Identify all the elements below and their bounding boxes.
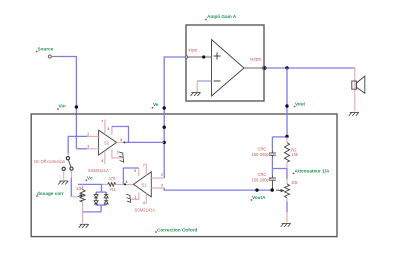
wire output inside box bbox=[244, 67, 263, 69]
wire switch right to wiper bbox=[71, 171, 73, 178]
capacitor C2 bbox=[271, 169, 273, 176]
wire S1 pin3 to attenuator bbox=[164, 188, 272, 190]
input port bbox=[185, 56, 187, 58]
pin 2 S1 bbox=[151, 177, 164, 179]
switch SW1 bbox=[67, 154, 69, 157]
op-amp U1 triangle bbox=[212, 40, 245, 97]
diode D4 bbox=[104, 198, 108, 205]
svg-text:1: 1 bbox=[135, 195, 137, 199]
output port bbox=[262, 67, 264, 69]
svg-text:Correction Oxford: Correction Oxford bbox=[157, 228, 198, 233]
speaker LS1 bbox=[352, 76, 365, 93]
wire input to plus bbox=[188, 56, 212, 58]
svg-text:150-200pF: 150-200pF bbox=[252, 152, 272, 157]
op-amp S2 bbox=[99, 130, 117, 155]
resistor R1 470 bbox=[103, 183, 108, 185]
ground attenuator bbox=[281, 223, 291, 227]
svg-text:SSM2141A: SSM2141A bbox=[88, 168, 109, 173]
pin 7 stub S1 bbox=[145, 163, 147, 175]
wire diode box stub top bbox=[101, 184, 103, 192]
wire pin2 to switch bbox=[68, 136, 87, 153]
svg-text:7: 7 bbox=[101, 120, 103, 124]
svg-text:R1: R1 bbox=[110, 187, 116, 192]
wire pot bottom bbox=[83, 211, 102, 213]
wiper arrow pot R3 bbox=[78, 195, 82, 197]
svg-text:10k: 10k bbox=[291, 180, 299, 185]
svg-text:10k: 10k bbox=[76, 186, 84, 191]
svg-text:470: 470 bbox=[109, 176, 117, 181]
pin 5 stub S2 bbox=[111, 127, 113, 135]
svg-text:On Off correction: On Off correction bbox=[34, 159, 66, 164]
pin 6 output S2 bbox=[117, 141, 125, 143]
svg-text:Vin: Vin bbox=[59, 104, 66, 109]
node Vin bbox=[75, 105, 78, 108]
ground in ampli box bbox=[191, 93, 201, 97]
node VoutA bbox=[255, 188, 258, 191]
resistor R2 bbox=[286, 137, 288, 143]
svg-text:5: 5 bbox=[134, 169, 136, 173]
wire diode box top bbox=[96, 191, 106, 193]
pin 4 stub S1 bbox=[145, 193, 147, 204]
wire attenuator top bbox=[272, 136, 287, 138]
svg-text:6: 6 bbox=[121, 138, 123, 142]
pin 3 S2 bbox=[87, 148, 99, 150]
ground S2 pin1 bbox=[119, 152, 124, 163]
node junction trunk S2 output bbox=[163, 141, 166, 144]
svg-text:input: input bbox=[189, 48, 199, 53]
svg-text:150-200pF: 150-200pF bbox=[252, 178, 272, 183]
wire speaker drop bbox=[354, 68, 356, 111]
pin 5 stub S1 bbox=[138, 168, 140, 176]
svg-text:VoutA: VoutA bbox=[252, 195, 266, 200]
wire pin3 to Vin trunk bbox=[76, 148, 87, 150]
wire S1 feedback loop bbox=[123, 168, 138, 184]
svg-text:Source: Source bbox=[38, 47, 54, 52]
wire diode box bottom bbox=[96, 204, 106, 206]
svg-text:4: 4 bbox=[143, 201, 145, 205]
svg-text:Ve: Ve bbox=[153, 102, 159, 107]
wire pot ground drop bbox=[82, 212, 84, 223]
wire output to speaker bbox=[265, 67, 355, 69]
ground pot bbox=[79, 224, 89, 228]
pin 1 S1 bbox=[131, 193, 139, 200]
svg-text:CRC: CRC bbox=[258, 147, 267, 152]
svg-text:7: 7 bbox=[143, 164, 145, 168]
svg-text:CRC: CRC bbox=[258, 172, 267, 177]
diode D2 bbox=[94, 198, 98, 205]
pin 7 stub S2 bbox=[104, 120, 106, 135]
pin 3 S1 bbox=[151, 187, 164, 189]
svg-text:Ampli Gain A: Ampli Gain A bbox=[207, 14, 237, 19]
wire attenuator mid bbox=[272, 168, 287, 170]
svg-text:5: 5 bbox=[108, 127, 110, 131]
wire diode box stub bottom bbox=[100, 205, 102, 212]
diode D1 bbox=[94, 192, 98, 198]
potentiometer R3 10k bbox=[82, 184, 84, 189]
wiper arrow pot R4 bbox=[276, 190, 284, 192]
svg-text:6: 6 bbox=[126, 180, 128, 184]
svg-text:Vc: Vc bbox=[87, 176, 93, 181]
pin 1 S2 bbox=[112, 150, 121, 158]
ground S1 pin1 bbox=[126, 194, 131, 202]
box Ampli Gain A bbox=[186, 25, 264, 101]
wire minus to ground bbox=[197, 80, 211, 82]
wire Ve trunk to ampli input bbox=[164, 57, 186, 178]
svg-text:SSM2141A: SSM2141A bbox=[135, 208, 156, 213]
svg-text:S1: S1 bbox=[142, 183, 148, 188]
svg-text:Vout: Vout bbox=[295, 102, 306, 107]
svg-text:2: 2 bbox=[161, 173, 163, 177]
svg-text:4: 4 bbox=[101, 159, 103, 163]
wire S2 feedback loop bbox=[112, 127, 129, 143]
wire switch left to ground bbox=[63, 171, 65, 180]
potentiometer R4 bbox=[286, 169, 288, 180]
svg-text:output: output bbox=[250, 57, 262, 62]
source terminal bbox=[48, 55, 51, 58]
svg-text:3: 3 bbox=[87, 145, 89, 149]
op-amp S1 bbox=[134, 172, 152, 197]
ground switch bbox=[58, 181, 68, 185]
box Correction Oxford bbox=[31, 114, 337, 237]
node junction trunk upper bbox=[163, 126, 166, 129]
pin 2 S2 bbox=[87, 135, 99, 137]
node junction right trunk bbox=[285, 66, 288, 69]
svg-text:2: 2 bbox=[87, 132, 89, 136]
svg-text:Attenuateur 1/A: Attenuateur 1/A bbox=[295, 169, 331, 174]
svg-text:dosage corr: dosage corr bbox=[37, 191, 64, 196]
switch blade bbox=[68, 160, 71, 167]
wire Source to Vin trunk bbox=[60, 57, 76, 149]
svg-text:1: 1 bbox=[117, 151, 119, 155]
wire Vout trunk bbox=[286, 68, 288, 137]
svg-text:S2: S2 bbox=[104, 141, 110, 146]
node Vout bbox=[285, 104, 288, 107]
pin 4 stub S2 bbox=[104, 151, 106, 164]
wire S2 output to trunk bbox=[125, 141, 165, 143]
svg-text:10k: 10k bbox=[291, 152, 299, 157]
wire Vc top bbox=[78, 183, 103, 185]
node Ve bbox=[163, 106, 166, 109]
ground speaker bbox=[349, 112, 359, 116]
capacitor C1 bbox=[271, 137, 273, 151]
svg-text:3: 3 bbox=[161, 184, 163, 188]
diode D3 bbox=[104, 192, 108, 198]
